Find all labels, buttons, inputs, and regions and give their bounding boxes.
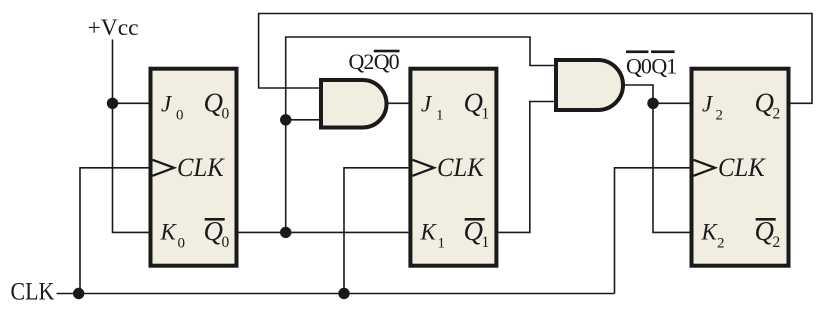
svg-text:J: J bbox=[421, 91, 433, 116]
wire AND2 output to J2 bbox=[623, 85, 690, 103]
node AND1 lower input junction bbox=[280, 114, 291, 125]
svg-text:Q: Q bbox=[464, 216, 484, 246]
svg-text:CLK: CLK bbox=[718, 153, 766, 182]
svg-text:Q: Q bbox=[204, 216, 224, 246]
svg-text:1: 1 bbox=[438, 236, 446, 252]
node Vcc/J0 junction bbox=[107, 98, 118, 109]
node Q0bar rail junction bbox=[280, 227, 291, 238]
svg-text:CLK: CLK bbox=[437, 153, 485, 182]
and-gate G2 body bbox=[556, 60, 623, 110]
flip-flop U3 body bbox=[692, 69, 789, 266]
pin label K0 bbox=[160, 220, 186, 252]
clock chevron U2 bbox=[413, 160, 435, 176]
pin label K2 bbox=[701, 220, 725, 252]
svg-text:K: K bbox=[701, 220, 719, 245]
svg-text:Q1: Q1 bbox=[651, 53, 676, 78]
label Q0barQ1bar above G2 output bbox=[626, 50, 676, 78]
wire CLK bottom rail bbox=[57, 293, 615, 295]
pin label Q0bar bbox=[204, 216, 230, 251]
clock chevron U3 bbox=[694, 160, 716, 176]
wire Q2 feedback to AND1 upper input bbox=[259, 14, 812, 104]
svg-text:CLK: CLK bbox=[11, 278, 55, 306]
flip-flop U2 body bbox=[410, 69, 496, 266]
pin label J2 bbox=[702, 91, 723, 123]
svg-text:1: 1 bbox=[436, 107, 444, 123]
node AND2 output junction bbox=[647, 98, 658, 109]
wire Q0bar rail from FF0 to K1 bbox=[239, 231, 409, 233]
svg-text:Q: Q bbox=[204, 87, 224, 117]
svg-text:0: 0 bbox=[176, 107, 184, 123]
svg-text:0: 0 bbox=[178, 236, 186, 252]
wire Q0bar feedback up to AND2 upper input bbox=[286, 37, 557, 232]
wire FF1 clock input from CLK rail bbox=[344, 168, 408, 294]
wire J0 input stub bbox=[113, 102, 149, 104]
node CLK rail junction FF0 bbox=[73, 288, 84, 299]
svg-text:2: 2 bbox=[716, 107, 724, 123]
wire AND2 output branch to K2 bbox=[653, 103, 690, 232]
svg-text:1: 1 bbox=[482, 106, 490, 123]
svg-text:Q0: Q0 bbox=[626, 53, 652, 78]
svg-text:+Vcc: +Vcc bbox=[88, 15, 139, 41]
wire Q1bar to AND2 lower input bbox=[498, 102, 557, 233]
svg-text:Q: Q bbox=[755, 216, 775, 246]
pin label J0 bbox=[161, 91, 184, 123]
label Q2Q0bar above G1 bbox=[349, 49, 400, 74]
clock chevron U1 bbox=[153, 160, 175, 176]
svg-text:0: 0 bbox=[222, 106, 230, 123]
svg-text:2: 2 bbox=[717, 236, 725, 252]
svg-text:CLK: CLK bbox=[177, 153, 225, 182]
and-gate G1 body bbox=[321, 80, 387, 128]
svg-text:1: 1 bbox=[482, 234, 490, 251]
svg-text:K: K bbox=[420, 220, 438, 245]
svg-text:Q2: Q2 bbox=[349, 49, 374, 74]
svg-text:J: J bbox=[161, 91, 173, 116]
svg-text:2: 2 bbox=[773, 106, 781, 123]
svg-text:Q0: Q0 bbox=[374, 49, 400, 74]
pin label K1 bbox=[420, 220, 446, 252]
svg-text:Q: Q bbox=[755, 87, 775, 117]
svg-text:K: K bbox=[160, 220, 178, 245]
svg-text:Q: Q bbox=[464, 87, 484, 117]
svg-text:J: J bbox=[702, 91, 714, 116]
pin label Q1 bbox=[464, 87, 490, 122]
svg-text:2: 2 bbox=[773, 234, 781, 251]
svg-text:0: 0 bbox=[222, 234, 230, 251]
node CLK rail junction FF1 bbox=[338, 288, 349, 299]
wire AND1 output to J1 bbox=[387, 102, 411, 104]
pin label Q0 bbox=[204, 87, 230, 122]
wire AND1 lower input stub bbox=[286, 119, 322, 121]
pin label Q2 bbox=[755, 87, 781, 122]
pin label J1 bbox=[421, 91, 444, 123]
wire Vcc lead down to J0 and K0 bbox=[113, 40, 149, 233]
pin label Q1bar bbox=[464, 216, 490, 251]
wire FF2 clock input from CLK rail bbox=[615, 168, 690, 294]
pin label Q2bar bbox=[755, 216, 781, 251]
flip-flop U1 body bbox=[151, 69, 237, 266]
wire FF0 clock input from CLK rail bbox=[80, 168, 149, 294]
